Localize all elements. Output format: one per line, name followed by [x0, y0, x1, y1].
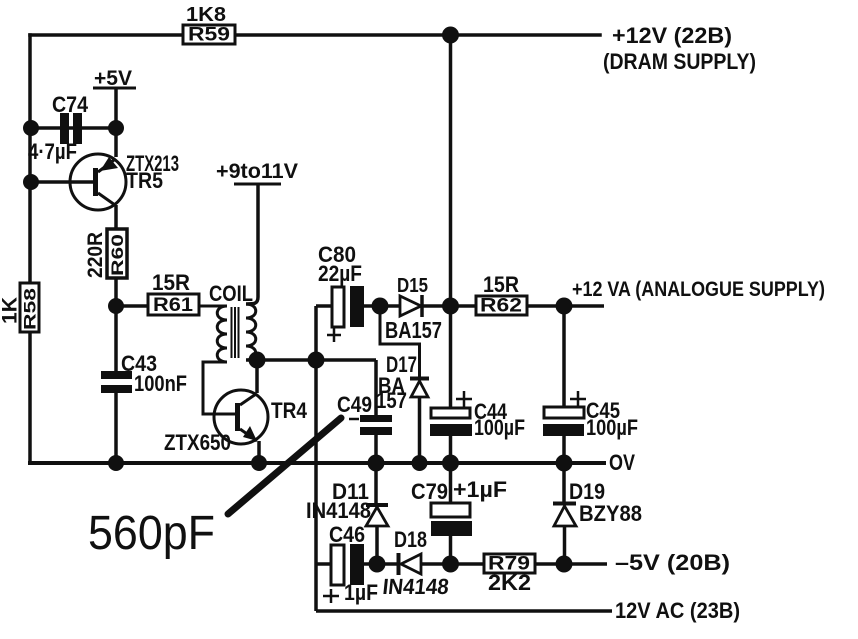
svg-text:100nF: 100nF [134, 371, 187, 396]
wire coil primary bottom to TR4 base [203, 362, 236, 414]
svg-text:+12V (22B): +12V (22B) [612, 23, 732, 48]
svg-text:1µF: 1µF [344, 580, 378, 605]
svg-text:22µF: 22µF [318, 261, 362, 286]
svg-text:560pF: 560pF [88, 507, 215, 560]
transistor TR5 [70, 154, 126, 229]
wire to +12VA terminal [564, 304, 604, 308]
wire R60 to R61 node [114, 278, 118, 306]
resistor R61 [148, 294, 199, 316]
junction 0V / C43 [108, 455, 124, 471]
junction C74 / +5V stem [108, 120, 124, 136]
svg-text:IN4148: IN4148 [381, 574, 450, 599]
diode D11 [366, 463, 388, 564]
wire left rail [28, 35, 32, 463]
wire 12V AC rail [316, 609, 612, 613]
junction D18 / C79 / R79 [442, 556, 459, 573]
wire coil secondary to TR4 collector node [246, 358, 257, 362]
diode D17 [410, 379, 429, 464]
svg-text:TR4: TR4 [271, 398, 308, 423]
svg-text:+9to11V: +9to11V [216, 160, 298, 183]
junction 0V / C45 / D19 [556, 455, 573, 472]
wire node to R61 [116, 304, 148, 308]
diode D18 [377, 553, 450, 575]
power +9to11V [216, 160, 298, 304]
inductor core [232, 307, 239, 358]
wire 0V rail [30, 461, 604, 465]
svg-text:C49: C49 [337, 392, 372, 417]
capacitor C49 [349, 360, 392, 463]
capacitor C44 [430, 391, 472, 503]
capacitor C43 [101, 306, 132, 463]
svg-text:D15: D15 [397, 275, 428, 297]
junction 0V / TR4 emitter [251, 455, 267, 471]
svg-text:100µF: 100µF [474, 415, 525, 440]
power +5V [93, 67, 136, 157]
svg-text:R59: R59 [188, 25, 230, 46]
svg-text:15R: 15R [152, 270, 190, 295]
wire R61 to coil [199, 305, 227, 308]
junction left rail / C74 [23, 120, 39, 136]
junction C46 / D11 / D18 [369, 556, 386, 573]
wire D17 link from D15 anode node [380, 306, 420, 377]
transistor TR4 [214, 360, 268, 463]
svg-text:100µF: 100µF [586, 415, 638, 440]
junction R79 / D19 / -5V [556, 556, 573, 573]
svg-text:12V AC (23B): 12V AC (23B) [615, 598, 740, 623]
svg-text:4·7µF: 4·7µF [28, 139, 77, 164]
capacitor C74 [31, 113, 117, 144]
svg-text:1K: 1K [0, 297, 22, 324]
svg-text:2K2: 2K2 [488, 570, 531, 595]
svg-text:R61: R61 [153, 295, 193, 316]
svg-text:1K8: 1K8 [186, 4, 226, 26]
svg-text:+1µF: +1µF [453, 477, 507, 502]
junction R60 / R61 / C43 [108, 298, 124, 314]
junction 0V / D17 [412, 455, 428, 471]
svg-text:OV: OV [609, 450, 635, 475]
wire C80 left lead [316, 304, 332, 308]
svg-text:C74: C74 [52, 92, 89, 117]
resistor R79 [451, 554, 565, 575]
svg-text:ZTX650: ZTX650 [164, 430, 231, 455]
svg-text:IN4148: IN4148 [306, 498, 371, 523]
resistor R59 [183, 25, 235, 46]
inductor COIL primary winding [217, 306, 227, 362]
wire TR5 base [31, 180, 93, 184]
junction 12V column / R62 [442, 298, 459, 315]
junction top rail / 12V column [442, 27, 459, 44]
junction C80 / D15 / D17 [372, 298, 389, 315]
junction left rail / TR5 base [23, 174, 39, 190]
junction R62 / C45 column [556, 298, 573, 315]
wire top rail [30, 33, 600, 37]
junction mid node x316 [308, 352, 325, 369]
svg-text:220R: 220R [84, 232, 107, 278]
wire collector node to C80 node [257, 358, 376, 362]
svg-text:D18: D18 [394, 527, 427, 552]
svg-text:15R: 15R [483, 272, 519, 297]
diode D15 [380, 295, 450, 317]
wire main vertical (12V column) [449, 35, 453, 408]
junction 0V / C44 / C79 [442, 455, 459, 472]
junction TR4 collector / coil [249, 352, 266, 369]
svg-text:–5V (20B): –5V (20B) [615, 550, 730, 575]
inductor COIL secondary winding [246, 304, 256, 360]
svg-text:C46: C46 [329, 522, 365, 547]
capacitor C80 [327, 286, 375, 342]
capacitor C79 [431, 503, 472, 564]
resistor R60 [107, 229, 127, 278]
wire vertical x316 (C80 to 12V AC) [314, 306, 318, 611]
capacitor C46 [316, 544, 377, 603]
diode D19 [553, 463, 576, 564]
svg-text:BA157: BA157 [385, 317, 442, 343]
wire to -5V terminal [564, 562, 607, 566]
svg-text:157: 157 [376, 388, 407, 413]
svg-text:C79: C79 [411, 479, 448, 504]
resistor R58 [20, 283, 40, 332]
capacitor C45 [543, 306, 586, 463]
svg-text:+12 VA (ANALOGUE SUPPLY): +12 VA (ANALOGUE SUPPLY) [572, 278, 825, 301]
svg-text:R62: R62 [480, 296, 522, 317]
svg-text:R58: R58 [21, 288, 40, 330]
svg-text:BZY88: BZY88 [579, 501, 642, 526]
svg-text:TR5: TR5 [126, 168, 163, 193]
resistor R62 [450, 296, 564, 317]
junction 0V / C49 / D11 [368, 455, 385, 472]
pointer line 560pF to C49 [228, 418, 341, 514]
svg-text:R60: R60 [108, 234, 127, 276]
svg-text:(DRAM SUPPLY): (DRAM SUPPLY) [603, 49, 756, 74]
